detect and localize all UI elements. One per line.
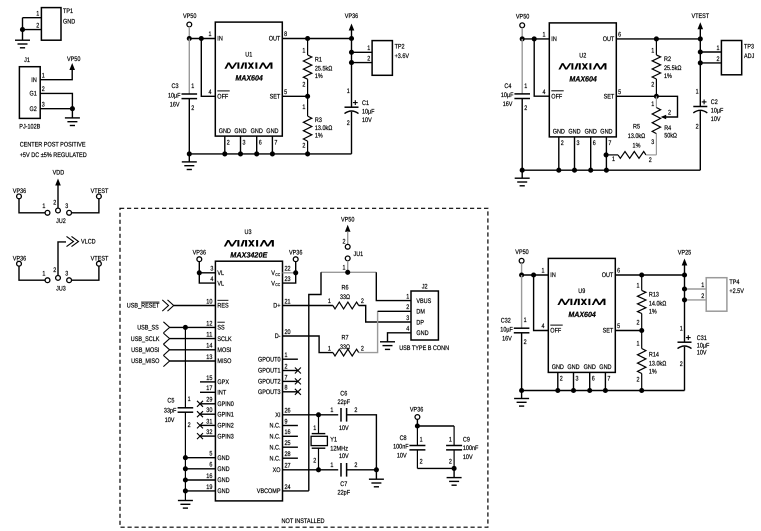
svg-text:12MHz: 12MHz [330, 445, 348, 452]
U3 pin 30 GPIN1 (no connect) [200, 413, 215, 415]
junction VP50/IN (U2) [520, 36, 525, 41]
svg-text:22: 22 [285, 266, 291, 273]
svg-text:TP3: TP3 [744, 44, 754, 51]
svg-text:GND: GND [234, 128, 246, 135]
svg-text:GND: GND [63, 19, 75, 26]
U3 pin 12 SS [170, 326, 216, 328]
svg-text:OUT: OUT [603, 36, 615, 43]
svg-text:4: 4 [406, 326, 409, 333]
wire SET to R4 wiper [656, 96, 677, 117]
wire C7 to ground branch [347, 469, 377, 471]
wire C2 to rail [699, 111, 701, 170]
svg-text:1%: 1% [315, 73, 323, 80]
svg-text:GPIN3: GPIN3 [217, 433, 234, 440]
svg-text:29: 29 [206, 397, 212, 404]
junction VCC pins [293, 270, 298, 275]
U3 pin 28 NC [283, 457, 298, 459]
svg-text:25.5kΩ: 25.5kΩ [664, 65, 681, 72]
svg-text:CC: CC [275, 282, 280, 287]
junction VP50/IN (U1) [187, 36, 192, 41]
junction JU1/VBUS rail [345, 270, 350, 275]
svg-text:IN: IN [217, 36, 223, 43]
ground (U3) [178, 500, 193, 502]
svg-text:12: 12 [206, 320, 212, 327]
U3 pin 14 MOSI [170, 349, 216, 351]
svg-text:1: 1 [637, 341, 640, 348]
U3 pin 10 RES [174, 305, 216, 307]
svg-text:50kΩ: 50kΩ [664, 133, 677, 140]
svg-text:13.0kΩ: 13.0kΩ [315, 125, 332, 132]
svg-text:13.0kΩ: 13.0kΩ [628, 133, 645, 140]
wire VBUS rail to J2 VBUS [376, 272, 411, 300]
svg-text:11: 11 [206, 332, 212, 339]
svg-text:ADJ: ADJ [744, 53, 754, 60]
junction R5/GND pin 7 [604, 152, 609, 157]
svg-text:MAX604: MAX604 [569, 75, 597, 84]
svg-text:10V: 10V [339, 425, 349, 432]
svg-text:MOSI: MOSI [217, 347, 231, 354]
svg-text:10V: 10V [397, 452, 407, 459]
svg-text:1: 1 [302, 104, 305, 111]
svg-text:NOT INSTALLED: NOT INSTALLED [282, 518, 325, 525]
svg-text:1: 1 [524, 83, 527, 90]
svg-text:VP36: VP36 [289, 250, 303, 257]
wire IN (U1) [189, 38, 215, 40]
svg-text:10V: 10V [711, 116, 721, 123]
svg-text:16V: 16V [170, 101, 180, 108]
svg-text:VTEST: VTEST [691, 13, 709, 20]
wire VP25/C31 vertical [684, 265, 686, 342]
svg-text:G2: G2 [30, 106, 38, 113]
svg-text:1%: 1% [649, 309, 657, 316]
U3 pin 7 GPOUT2 (no connect) [283, 380, 298, 382]
svg-text:16: 16 [206, 473, 212, 480]
svg-text:MISO: MISO [217, 358, 231, 365]
svg-text:GPOUT3: GPOUT3 [258, 389, 281, 396]
svg-text:5: 5 [618, 89, 621, 96]
svg-text:1: 1 [449, 437, 452, 444]
resistor R2 25.5k 1% [655, 39, 657, 55]
svg-text:1: 1 [717, 45, 720, 52]
svg-text:3: 3 [577, 140, 580, 147]
svg-text:1: 1 [343, 264, 346, 271]
svg-text:USB_MOSI: USB_MOSI [131, 347, 159, 354]
junction OUT/R2 [654, 36, 659, 41]
svg-text:USB TYPE B CONN: USB TYPE B CONN [399, 345, 449, 352]
svg-text:24: 24 [285, 484, 291, 491]
junction XI/Y1 [316, 412, 321, 417]
U3 pin 8 GPOUT3 (no connect) [283, 391, 298, 393]
svg-text:GND: GND [217, 455, 229, 462]
svg-text:U9: U9 [578, 288, 585, 295]
junction SET/R1/R3 [305, 94, 310, 99]
svg-text:N.C.: N.C. [270, 434, 281, 441]
svg-text:VL: VL [217, 270, 224, 277]
svg-text:GND: GND [585, 129, 597, 136]
junction OFF branch (U9) [531, 272, 536, 277]
wire VBUS rail [321, 271, 376, 273]
svg-text:SET: SET [603, 328, 614, 335]
svg-text:8: 8 [284, 31, 287, 38]
svg-text:20: 20 [285, 329, 291, 336]
svg-text:30: 30 [206, 407, 212, 414]
svg-text:TP4: TP4 [729, 279, 739, 286]
svg-text:C5: C5 [167, 398, 174, 405]
wire rail (U2) [522, 169, 700, 171]
svg-text:1: 1 [542, 268, 545, 275]
svg-text:GPIN1: GPIN1 [217, 411, 234, 418]
U3 pin 6 GND [185, 468, 215, 470]
U3 pin 27 XO [283, 469, 339, 471]
wire J2 GND to ground [388, 333, 412, 342]
capacitor C3 10µF 16V [182, 93, 198, 95]
svg-text:XO: XO [273, 467, 281, 474]
junction R14/rail [639, 388, 644, 393]
svg-text:10µF: 10µF [362, 108, 375, 115]
svg-text:GND: GND [416, 330, 428, 337]
wire OUT (U2) [616, 38, 700, 40]
svg-text:10V: 10V [697, 350, 707, 357]
svg-text:+3.6V: +3.6V [395, 53, 410, 60]
junction C9/ground [452, 466, 457, 471]
svg-text:10µF: 10µF [500, 327, 513, 334]
svg-text:XI: XI [275, 412, 280, 419]
junction OFF branch (U1) [199, 36, 204, 41]
svg-text:10: 10 [206, 298, 212, 305]
svg-text:2: 2 [227, 139, 230, 146]
svg-text:2: 2 [637, 377, 640, 384]
svg-text:1: 1 [543, 32, 546, 39]
svg-text:C4: C4 [504, 83, 511, 90]
junction VL pins [197, 270, 202, 275]
U3 pin 22 VCC [283, 272, 296, 274]
wire VP50 to IN (U9) [521, 263, 523, 275]
svg-text:100nF: 100nF [463, 445, 479, 452]
svg-text:1: 1 [36, 11, 39, 18]
svg-text:2: 2 [188, 422, 191, 429]
wire SET (U1) [282, 95, 307, 97]
svg-text:PJ-102B: PJ-102B [19, 124, 40, 131]
svg-text:OUT: OUT [269, 36, 281, 43]
wire IN (U9) [522, 274, 549, 276]
svg-text:1: 1 [42, 270, 45, 277]
svg-text:VP36: VP36 [193, 250, 207, 257]
svg-text:5: 5 [284, 89, 287, 96]
svg-text:VP50: VP50 [183, 13, 197, 20]
svg-text:22pF: 22pF [338, 490, 351, 497]
svg-text:2: 2 [53, 200, 56, 207]
svg-text:32: 32 [206, 429, 212, 436]
junction TP1 pin2 [20, 27, 25, 32]
svg-text:8: 8 [285, 385, 288, 392]
svg-text:C1: C1 [362, 100, 369, 107]
U3 pin 13 MISO [170, 360, 216, 362]
svg-text:USB_SCLK: USB_SCLK [131, 336, 160, 343]
U3 pin 29 GPIN0 (no connect) [200, 403, 215, 405]
svg-text:10V: 10V [165, 417, 175, 424]
wire C8/C9 bottom rail [417, 467, 454, 469]
svg-text:4: 4 [542, 323, 545, 330]
svg-text:16: 16 [285, 429, 291, 436]
wire J1 G2 [40, 108, 72, 110]
svg-text:2: 2 [637, 319, 640, 326]
svg-text:TP1: TP1 [63, 8, 73, 15]
svg-text:+5V DC ±5% REGULATED: +5V DC ±5% REGULATED [20, 152, 87, 159]
svg-text:19: 19 [206, 484, 212, 491]
wire OFF branch (U2) [534, 39, 549, 96]
svg-text:33pF: 33pF [164, 408, 177, 415]
U3 pin 19 GND [185, 490, 215, 492]
svg-text:6: 6 [617, 268, 620, 275]
svg-text:1: 1 [328, 298, 331, 305]
svg-text:33Ω: 33Ω [340, 294, 350, 301]
svg-text:14.0kΩ: 14.0kΩ [649, 301, 666, 308]
svg-text:GND: GND [567, 364, 579, 371]
svg-text:10V: 10V [362, 117, 372, 124]
wire VP36/C1 vertical [351, 30, 353, 107]
svg-text:2: 2 [668, 110, 671, 117]
U3 pin 16 GND [185, 479, 215, 481]
svg-text:1: 1 [347, 88, 350, 95]
svg-text:2: 2 [354, 462, 357, 469]
resistor R14 13.0k 1% [641, 331, 643, 349]
svg-text:+2.5V: +2.5V [729, 288, 744, 295]
svg-text:4: 4 [209, 89, 212, 96]
svg-text:J2: J2 [422, 284, 428, 291]
U3 pin 1 GPOUT0 [283, 358, 298, 360]
svg-text:2: 2 [361, 345, 364, 352]
svg-text:2: 2 [561, 140, 564, 147]
wire rail (U1) [189, 153, 351, 155]
wire VP36 to JU2 pin 1 [19, 199, 45, 213]
wire VP50 to C4 [521, 39, 523, 94]
svg-text:C2: C2 [711, 99, 718, 106]
svg-text:GND: GND [219, 128, 231, 135]
svg-text:OFF: OFF [550, 328, 561, 335]
svg-text:10V: 10V [339, 453, 349, 460]
svg-text:1: 1 [191, 83, 194, 90]
svg-text:7: 7 [274, 139, 277, 146]
wire VBUS rail to VBCOMP [309, 272, 321, 491]
ground (crystal) [375, 470, 377, 479]
svg-text:10µF: 10µF [168, 92, 181, 99]
svg-text:1%: 1% [633, 143, 641, 150]
ground (U1) [188, 154, 190, 162]
svg-text:2: 2 [420, 459, 423, 466]
svg-text:3: 3 [65, 270, 68, 277]
TP1 pin 2 [23, 29, 42, 31]
wire OFF branch (U9) [534, 275, 549, 331]
svg-text:SCLK: SCLK [217, 336, 232, 343]
resistor R3 13.0k 1% [307, 96, 309, 116]
U3 pin 16 NC [283, 435, 298, 437]
svg-text:6: 6 [593, 140, 596, 147]
svg-text:25.5kΩ: 25.5kΩ [315, 65, 332, 72]
svg-text:10µF: 10µF [711, 108, 724, 115]
potentiometer R4 50k [655, 96, 657, 107]
svg-text:OFF: OFF [217, 94, 228, 101]
junction XO/Y1 [316, 467, 321, 472]
junction OUT/VP25 [682, 272, 687, 277]
svg-text:GND: GND [584, 364, 596, 371]
U3 pin 20 D- [283, 336, 333, 353]
svg-text:2: 2 [361, 298, 364, 305]
svg-text:26: 26 [285, 408, 291, 415]
svg-text:D+: D+ [273, 303, 280, 310]
svg-text:GND: GND [251, 128, 263, 135]
svg-text:DM: DM [416, 309, 425, 316]
wire OUT (U9) [615, 274, 684, 276]
svg-text:31: 31 [206, 418, 212, 425]
wire VLCD to JU3 pin 2 [58, 242, 66, 276]
junction C6/C7 ground [374, 467, 379, 472]
svg-text:2: 2 [651, 82, 654, 89]
ground (J2) [380, 341, 395, 343]
svg-text:VP50: VP50 [515, 249, 529, 256]
U3 pin 5 GND [185, 457, 215, 459]
svg-text:22pF: 22pF [338, 399, 351, 406]
svg-text:10V: 10V [463, 454, 473, 461]
svg-text:R4: R4 [664, 125, 671, 132]
svg-text:C3: C3 [172, 83, 179, 90]
junction OUT/VP36 [349, 36, 354, 41]
svg-text:USB_SS: USB_SS [137, 325, 159, 332]
TP1 pin 1 [23, 17, 42, 19]
wire VP36 to JU3 pin 1 [19, 266, 45, 280]
svg-text:1: 1 [637, 283, 640, 290]
wire SET (U2) [616, 95, 656, 97]
svg-text:100nF: 100nF [393, 444, 409, 451]
svg-text:13: 13 [206, 354, 212, 361]
wire JU1 pin 1 to VBUS rail [347, 261, 349, 273]
svg-text:INT: INT [217, 390, 226, 397]
wire to ground (J1) [71, 109, 73, 118]
svg-text:VP50: VP50 [67, 56, 81, 63]
svg-text:1: 1 [696, 89, 699, 96]
svg-text:VP50: VP50 [516, 14, 530, 21]
junction rail/ground (U9) [519, 388, 524, 393]
U3 pin 24 VBCOMP [283, 490, 309, 492]
svg-text:3: 3 [65, 203, 68, 210]
svg-text:VL: VL [217, 280, 224, 287]
svg-text:13.0kΩ: 13.0kΩ [649, 360, 666, 367]
svg-text:2: 2 [717, 56, 720, 63]
svg-text:VP36: VP36 [345, 13, 359, 20]
svg-text:JU3: JU3 [56, 286, 66, 293]
wire C32 to rail [521, 333, 523, 391]
svg-text:7: 7 [608, 140, 611, 147]
ground (C8/C9) [453, 468, 455, 477]
svg-text:USB_RESET: USB_RESET [127, 303, 160, 310]
U3 pin 26 XI [283, 414, 339, 416]
svg-text:1%: 1% [649, 369, 657, 376]
svg-text:VP50: VP50 [341, 216, 355, 223]
svg-text:USB_MISO: USB_MISO [131, 358, 159, 365]
svg-text:10µF: 10µF [501, 92, 514, 99]
svg-text:3: 3 [576, 376, 579, 383]
svg-text:27: 27 [285, 463, 291, 470]
svg-text:N.C.: N.C. [270, 423, 281, 430]
node VLCD (JU3) [67, 236, 74, 246]
svg-text:GND: GND [217, 488, 229, 495]
dashed box NOT INSTALLED region [120, 208, 488, 527]
wire OUT (U1) [282, 38, 351, 40]
wire C1 to rail [351, 112, 353, 154]
svg-text:1: 1 [330, 407, 333, 414]
ground (U2) [521, 170, 523, 178]
svg-text:U2: U2 [579, 53, 586, 60]
svg-text:Y1: Y1 [330, 437, 337, 444]
wire VTEST to JU3 pin 3 [71, 266, 99, 280]
U3 pin 9 NC [283, 425, 298, 427]
svg-text:CC: CC [275, 272, 280, 277]
svg-text:6: 6 [618, 32, 621, 39]
wire TP1 to ground [22, 18, 24, 41]
crystal Y1 12MHz [318, 415, 320, 434]
svg-text:2: 2 [524, 339, 527, 346]
svg-text:DP: DP [416, 319, 424, 326]
U3 pin 15 GPX [200, 381, 215, 383]
svg-text:9: 9 [285, 418, 288, 425]
svg-text:2: 2 [313, 457, 316, 464]
ground (TP1) [15, 39, 30, 41]
U3 pin 4 VL [199, 273, 215, 283]
svg-text:VBUS: VBUS [416, 298, 431, 305]
svg-text:GND: GND [217, 477, 229, 484]
svg-text:2: 2 [302, 82, 305, 89]
resistor R1 25.5k 1% [307, 39, 309, 56]
svg-text:1: 1 [302, 47, 305, 54]
test point TP2 +3.6V [372, 41, 392, 76]
wire SET (U9) [615, 330, 641, 332]
svg-text:6: 6 [259, 139, 262, 146]
svg-text:28: 28 [285, 451, 291, 458]
wire VTEST to JU2 pin 3 [71, 199, 99, 213]
junction SET/R2/R4 [654, 94, 659, 99]
svg-text:1: 1 [651, 47, 654, 54]
U3 pin 23 VCC [283, 273, 296, 283]
svg-text:MAX604: MAX604 [235, 74, 263, 83]
svg-text:2: 2 [343, 238, 346, 245]
svg-text:VP36: VP36 [410, 406, 424, 413]
ground (U9) [521, 391, 523, 399]
junction VP36/C8 [415, 423, 420, 428]
U3 pin 31 GPIN2 (no connect) [200, 424, 215, 426]
svg-text:2: 2 [560, 376, 563, 383]
svg-text:R2: R2 [664, 56, 671, 63]
svg-text:2: 2 [53, 267, 56, 274]
svg-text:16V: 16V [502, 336, 512, 343]
svg-text:3: 3 [210, 266, 213, 273]
test point TP1 (GND) [41, 8, 61, 41]
svg-text:14: 14 [206, 343, 212, 350]
svg-text:1: 1 [651, 101, 654, 108]
svg-text:VLCD: VLCD [81, 239, 96, 246]
svg-text:R3: R3 [315, 117, 322, 124]
svg-text:4: 4 [210, 276, 213, 283]
junction OUT/VTEST [698, 36, 703, 41]
svg-text:JU1: JU1 [354, 251, 364, 258]
svg-text:U1: U1 [245, 52, 252, 59]
svg-text:1: 1 [367, 45, 370, 52]
svg-text:IN: IN [551, 36, 557, 43]
svg-text:GND: GND [552, 364, 564, 371]
svg-text:1%: 1% [664, 73, 672, 80]
svg-text:7: 7 [607, 376, 610, 383]
svg-text:GND: GND [266, 128, 278, 135]
test point TP3 ADJ [721, 41, 741, 75]
svg-text:6: 6 [592, 376, 595, 383]
